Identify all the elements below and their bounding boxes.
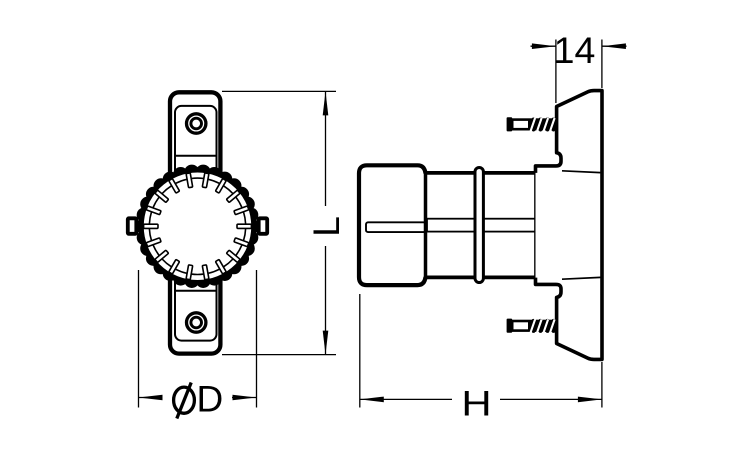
- svg-text:D: D: [197, 379, 224, 420]
- L dimension line: [325, 91, 327, 206]
- cone surface line top: [562, 171, 601, 173]
- section divider: [424, 171, 428, 279]
- screw hole top: [187, 114, 206, 133]
- plate chord bottom: [175, 290, 217, 292]
- top screw: [507, 117, 556, 131]
- phi-D extension line left: [138, 270, 140, 408]
- knob scalloped silhouette: [136, 165, 260, 288]
- cone surface line bottom: [562, 277, 601, 279]
- tube top edge: [426, 171, 536, 175]
- H extension line right: [601, 362, 603, 408]
- slot bar in left section: [366, 222, 426, 232]
- label L: [306, 216, 347, 237]
- middle band: [427, 219, 536, 232]
- 14 dimension line + arrows: [531, 45, 556, 47]
- svg-text:L: L: [306, 216, 347, 237]
- H extension line left: [359, 294, 361, 408]
- left tab: [128, 218, 137, 234]
- knob inner circle: [143, 172, 252, 281]
- tube bottom edge: [426, 275, 536, 279]
- plate inner outline: [175, 106, 217, 341]
- gear radial slots: [144, 173, 252, 280]
- phi-D dimension line: [139, 397, 163, 399]
- phi-D extension line right: [256, 270, 258, 408]
- svg-text:H: H: [461, 384, 491, 423]
- flange outline: [536, 91, 603, 360]
- screw hole bottom: [187, 313, 206, 332]
- right tab: [259, 218, 268, 234]
- plate chord top: [175, 155, 217, 157]
- label phi D: [174, 379, 224, 420]
- gear ring arcs: [149, 178, 245, 274]
- 14 extension line right: [601, 40, 603, 89]
- 14 extension line left: [555, 40, 557, 104]
- body left section: [359, 165, 426, 285]
- L extension line top: [222, 90, 336, 92]
- rib ring: [475, 168, 483, 283]
- mounting plate outer: [170, 92, 220, 353]
- H dimension line: [360, 398, 452, 400]
- svg-text:14: 14: [554, 29, 596, 71]
- tube end line: [534, 171, 537, 279]
- bottom screw: [507, 319, 556, 333]
- L extension line bottom: [222, 354, 336, 356]
